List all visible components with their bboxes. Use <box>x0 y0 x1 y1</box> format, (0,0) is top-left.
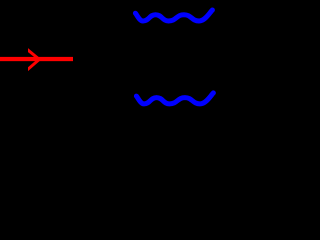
photon wavy line bottom (blue) <box>136 93 213 104</box>
wire fermion line (red, incoming) <box>0 57 73 61</box>
arrowhead on fermion line <box>28 48 42 71</box>
photon wavy line top (blue) <box>135 10 212 21</box>
